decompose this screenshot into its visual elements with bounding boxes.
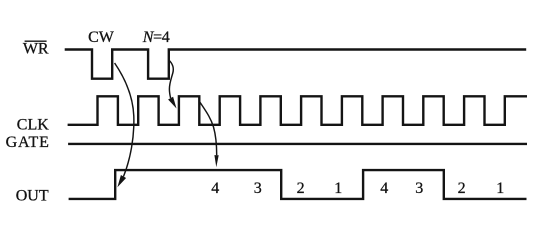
- svg-text:1: 1: [496, 180, 504, 197]
- svg-text:N=4: N=4: [142, 29, 170, 46]
- svg-text:4: 4: [380, 180, 388, 197]
- svg-text:GATE: GATE: [6, 134, 50, 151]
- svg-text:2: 2: [297, 180, 305, 197]
- svg-text:3: 3: [254, 180, 262, 197]
- svg-text:2: 2: [458, 180, 466, 197]
- svg-text:3: 3: [415, 180, 423, 197]
- svg-text:WR: WR: [23, 41, 49, 58]
- svg-text:CLK: CLK: [17, 117, 49, 134]
- svg-text:1: 1: [334, 180, 342, 197]
- svg-text:CW: CW: [88, 29, 115, 46]
- svg-text:OUT: OUT: [16, 188, 49, 205]
- svg-text:4: 4: [211, 180, 219, 197]
